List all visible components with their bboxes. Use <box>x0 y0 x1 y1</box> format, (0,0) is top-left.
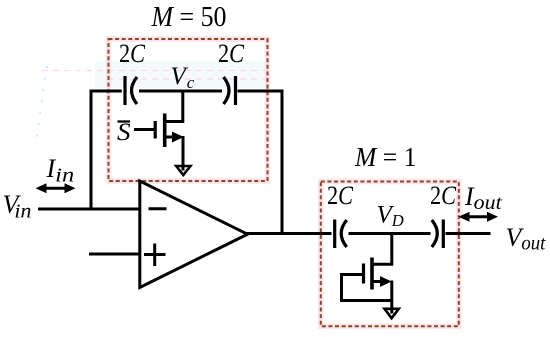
wire: feedback right vertical <box>281 90 284 234</box>
transistor M2 channel bar <box>370 258 374 290</box>
op-amp minus sign <box>149 207 167 210</box>
label Iout arrow (double) <box>467 215 489 218</box>
wire: M2 source to ground <box>390 281 393 314</box>
capacitor 2C out-right: curved plate <box>432 220 438 247</box>
svg-text:2C: 2C <box>430 181 457 210</box>
dashed box M=1 halo <box>321 182 459 327</box>
wire: Vc segment <box>139 90 222 93</box>
wire: Vc node drain riser <box>165 90 183 122</box>
dashed box M=50 halo <box>109 39 268 181</box>
svg-text:2C: 2C <box>218 39 245 68</box>
dashed box M=1 <box>321 182 459 327</box>
wire: output segment <box>446 232 491 235</box>
transistor M2 gate bar <box>362 264 365 284</box>
wire: plus input <box>89 253 140 256</box>
wire: M1 source to ground <box>182 136 185 171</box>
wire: M2 source lead <box>372 280 384 283</box>
M2 source arrow <box>380 276 392 287</box>
capacitor 2C right: curved plate <box>224 77 230 104</box>
capacitor 2C out-right: straight plate <box>442 220 445 249</box>
artifact cyan band near Vc <box>95 61 265 88</box>
wire: feedback top right segment <box>238 90 284 93</box>
op-amp U1 <box>140 181 248 288</box>
svg-text:M = 1: M = 1 <box>354 142 416 172</box>
wire: input vertical riser <box>90 90 93 211</box>
ground (M=50 box) <box>176 166 190 175</box>
op-amp plus sign <box>144 253 166 256</box>
artifact pink dashed line 2 <box>108 78 267 80</box>
wire: M2 gate lead <box>342 273 364 276</box>
transistor M1 gate bar <box>154 121 157 139</box>
wire: VD segment <box>349 232 431 235</box>
svg-text:2C: 2C <box>327 181 354 210</box>
wire: M2 gate feedback loop <box>342 273 392 301</box>
svg-text:S: S <box>117 119 131 146</box>
wire: M1 source lead <box>165 136 176 139</box>
svg-text:M = 50: M = 50 <box>151 1 227 33</box>
label Iin arrow (double) <box>44 187 67 190</box>
wire: input (minus) <box>38 208 140 211</box>
dashed box M=50 <box>109 39 268 181</box>
capacitor 2C out-left: straight plate <box>333 220 336 249</box>
wire: feedback top left segment <box>90 90 122 93</box>
capacitor 2C right: straight plate <box>234 76 237 105</box>
wire: M1 gate lead <box>134 128 155 131</box>
transistor M1 channel bar <box>163 114 167 148</box>
ground (M=1 box) <box>385 309 399 318</box>
artifact blue diagonal dots <box>36 66 47 142</box>
capacitor 2C left: curved plate <box>132 77 138 104</box>
wire: VD node drain riser <box>372 232 392 264</box>
svg-text:2C: 2C <box>119 39 146 68</box>
M1 source arrow <box>172 132 184 143</box>
capacitor 2C left: straight plate <box>123 76 126 105</box>
capacitor 2C out-left: curved plate <box>341 220 347 247</box>
artifact pink dashed line 1 <box>42 70 267 72</box>
wire: op-amp output <box>246 232 332 235</box>
